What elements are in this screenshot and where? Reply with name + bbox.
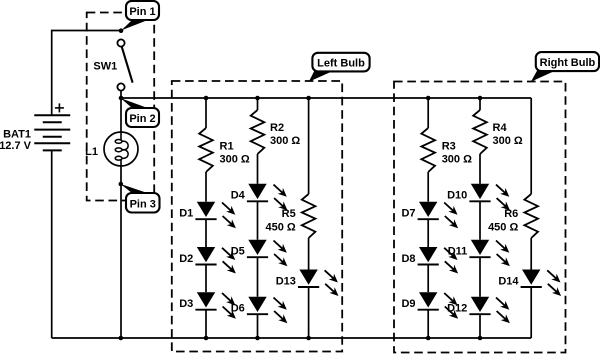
wire D12 to bottom rail [479, 314, 481, 338]
wire battery negative lead [51, 150, 53, 338]
svg-text:D11: D11 [448, 246, 468, 258]
wire battery positive lead [52, 31, 121, 116]
label R4 value 300 Ω [493, 122, 523, 147]
wire R5 branch top lead [308, 98, 310, 194]
label D10 [447, 190, 467, 202]
wire R6 to D14 [530, 238, 532, 270]
LED D12 [469, 297, 510, 324]
LED D3 [195, 292, 236, 319]
callout label Pin 2 [121, 98, 159, 127]
node lamp branch / bottom rail [119, 336, 124, 341]
svg-text:D1: D1 [179, 208, 193, 220]
wire R3 branch top lead [427, 98, 429, 128]
svg-text:D7: D7 [401, 208, 415, 220]
svg-text:D13: D13 [276, 275, 296, 287]
label R6 value 450 Ω [488, 208, 518, 234]
svg-text:300 Ω: 300 Ω [270, 135, 300, 147]
LED D8 [418, 247, 459, 274]
switch SW1 [117, 39, 132, 90]
wire D7 to D8 [427, 219, 429, 247]
wire main top rail [121, 97, 531, 99]
svg-text:D6: D6 [231, 303, 245, 315]
switch/lamp assembly dashed enclosure [87, 13, 155, 201]
node R4 branch / top rail [478, 96, 483, 101]
LED D4 [247, 184, 288, 211]
svg-text:Pin 1: Pin 1 [129, 6, 155, 18]
LED D7 [418, 202, 459, 229]
label R5 value 450 Ω [265, 208, 295, 234]
svg-text:300 Ω: 300 Ω [442, 153, 472, 165]
LED D9 [418, 292, 459, 319]
wire D3 to bottom rail [205, 310, 207, 338]
svg-text:R1: R1 [220, 140, 234, 152]
label D1 [179, 208, 193, 220]
wire R4 branch top lead [479, 98, 481, 110]
LED D11 [469, 240, 510, 267]
LED D10 [469, 184, 510, 211]
node R3 branch / bottom rail [426, 336, 431, 341]
wire R1 to D1 [205, 172, 207, 202]
LED D13 [298, 270, 339, 297]
svg-text:Pin 2: Pin 2 [129, 113, 155, 125]
wire D13 to bottom rail [308, 287, 310, 338]
svg-text:450 Ω: 450 Ω [488, 221, 518, 233]
svg-text:R5: R5 [282, 208, 296, 220]
svg-text:R4: R4 [493, 122, 508, 134]
Right Bulb dashed enclosure [394, 82, 566, 353]
svg-text:Right Bulb: Right Bulb [540, 57, 596, 69]
node R3 branch / top rail [426, 96, 431, 101]
wire R1 branch top lead [205, 98, 207, 128]
label D11 [448, 246, 468, 258]
node R1 branch / bottom rail [204, 336, 209, 341]
node Pin 3 junction [119, 182, 124, 187]
battery BAT1 [34, 103, 70, 150]
wire R5 to D13 [308, 238, 310, 270]
wire R3 to D7 [427, 172, 429, 202]
label R1 value 300 Ω [220, 140, 250, 165]
label D4 [231, 190, 246, 202]
callout label Left Bulb [309, 53, 370, 82]
label R2 value 300 Ω [270, 122, 300, 147]
wire D2 to D3 [205, 265, 207, 293]
node R2 branch / bottom rail [255, 336, 260, 341]
LED D14 [521, 270, 562, 297]
callout label Pin 1 [121, 1, 159, 31]
wire switch lower lead to lamp [120, 91, 122, 132]
svg-text:D8: D8 [401, 253, 415, 265]
label D6 [231, 303, 245, 315]
wire R4 to D10 [479, 154, 481, 184]
LED D1 [195, 202, 236, 229]
label D12 [447, 303, 467, 315]
svg-text:300 Ω: 300 Ω [220, 153, 250, 165]
svg-text:D10: D10 [447, 190, 467, 202]
svg-text:12.7 V: 12.7 V [0, 140, 32, 152]
LED D2 [195, 247, 236, 274]
wire D10 to D11 [479, 201, 481, 239]
node Pin 1 junction [119, 28, 124, 33]
wire R6 branch top lead [530, 98, 532, 194]
label D2 [179, 253, 193, 265]
resistor R5 [302, 194, 316, 238]
svg-text:R6: R6 [504, 208, 518, 220]
node R1 branch / top rail [204, 96, 209, 101]
node R4 branch / bottom rail [478, 336, 483, 341]
svg-text:300 Ω: 300 Ω [493, 135, 523, 147]
label R3 value 300 Ω [442, 140, 472, 165]
node R5 branch / bottom rail [306, 336, 311, 341]
wire D1 to D2 [205, 219, 207, 247]
label D3 [179, 298, 193, 310]
resistor R1 [199, 128, 213, 172]
label D9 [401, 298, 415, 310]
LED D5 [247, 240, 288, 267]
LED D6 [247, 297, 288, 324]
label SW1 [93, 61, 117, 73]
node R2 branch / top rail [255, 96, 260, 101]
svg-text:D9: D9 [401, 298, 415, 310]
svg-text:D14: D14 [498, 275, 519, 287]
svg-text:D2: D2 [179, 253, 193, 265]
wire D8 to D9 [427, 265, 429, 293]
wire R2 to D4 [257, 154, 259, 184]
label D5 [231, 246, 245, 258]
wire lamp to bottom rail [120, 166, 122, 338]
wire D6 to bottom rail [257, 314, 259, 338]
label BAT1 12.7 V [0, 129, 32, 153]
wire D9 to bottom rail [427, 310, 429, 338]
label D14 [498, 275, 519, 287]
resistor R2 [251, 110, 265, 154]
label D8 [401, 253, 415, 265]
svg-text:450 Ω: 450 Ω [265, 221, 295, 233]
svg-text:SW1: SW1 [93, 61, 117, 73]
label D7 [401, 208, 415, 220]
resistor R6 [524, 194, 538, 238]
wire D11 to D12 [479, 257, 481, 297]
callout label Pin 3 [121, 184, 160, 213]
wire D14 to bottom rail [530, 287, 532, 338]
resistor R3 [421, 128, 435, 172]
callout label Right Bulb [531, 52, 599, 82]
svg-text:Pin 3: Pin 3 [130, 198, 156, 210]
svg-text:BAT1: BAT1 [3, 129, 31, 141]
label L1 [85, 146, 98, 158]
wire D4 to D5 [257, 201, 259, 239]
node Pin 2 junction [119, 96, 124, 101]
svg-text:R3: R3 [442, 140, 456, 152]
svg-text:D5: D5 [231, 246, 245, 258]
wire D5 to D6 [257, 257, 259, 297]
svg-text:D12: D12 [447, 303, 467, 315]
svg-text:Left Bulb: Left Bulb [317, 58, 365, 70]
resistor R4 [473, 110, 487, 154]
Left Bulb dashed enclosure [172, 81, 342, 352]
wire R2 branch top lead [257, 98, 259, 110]
svg-text:L1: L1 [85, 146, 98, 158]
node R5 branch / top rail [306, 96, 311, 101]
svg-text:D3: D3 [179, 298, 193, 310]
wire bottom rail [52, 337, 532, 339]
svg-text:D4: D4 [231, 190, 246, 202]
lamp L1 [104, 132, 138, 166]
label D13 [276, 275, 296, 287]
svg-text:R2: R2 [270, 122, 284, 134]
